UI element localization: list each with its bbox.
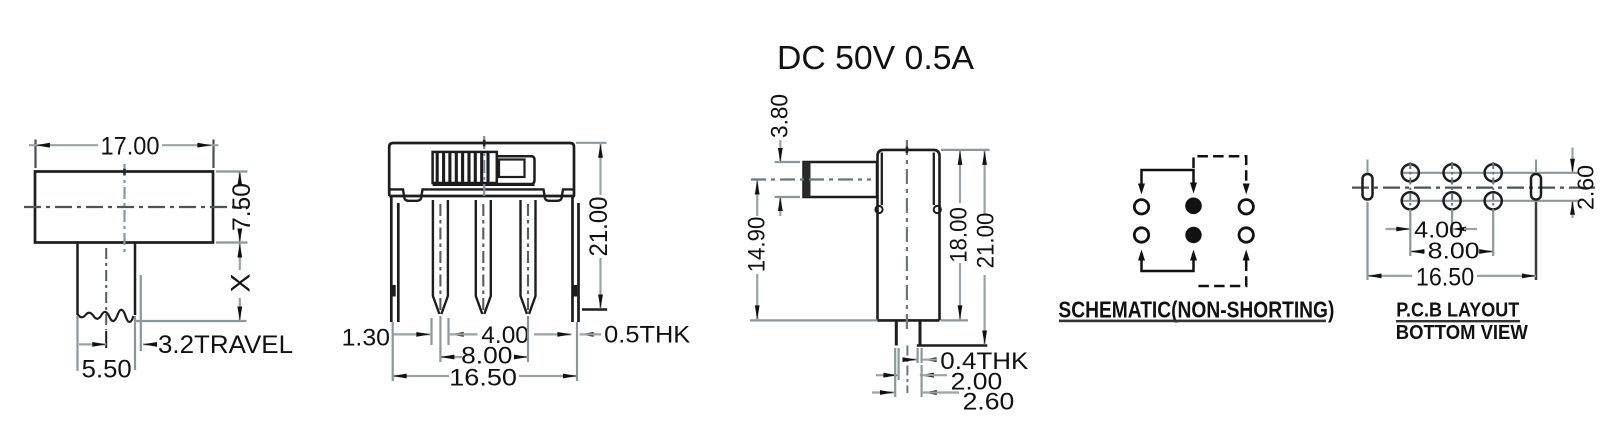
- svg-text:X: X: [226, 274, 256, 293]
- svg-text:3.80: 3.80: [767, 94, 794, 138]
- svg-text:DC 50V 0.5A: DC 50V 0.5A: [777, 40, 975, 77]
- svg-text:14.90: 14.90: [744, 217, 771, 273]
- svg-text:0.5THK: 0.5THK: [604, 322, 690, 349]
- svg-text:17.00: 17.00: [101, 133, 160, 161]
- svg-text:21.00: 21.00: [585, 197, 613, 257]
- svg-text:7.50: 7.50: [228, 183, 256, 231]
- svg-text:18.00: 18.00: [946, 207, 973, 263]
- svg-text:5.50: 5.50: [82, 356, 132, 384]
- svg-text:1.30: 1.30: [342, 325, 390, 352]
- svg-text:16.50: 16.50: [1416, 264, 1474, 292]
- svg-text:SCHEMATIC(NON-SHORTING): SCHEMATIC(NON-SHORTING): [1058, 296, 1334, 322]
- svg-text:21.00: 21.00: [973, 213, 1000, 269]
- svg-text:3.2TRAVEL: 3.2TRAVEL: [158, 331, 293, 359]
- svg-text:BOTTOM VIEW: BOTTOM VIEW: [1396, 321, 1529, 344]
- svg-text:P.C.B LAYOUT: P.C.B LAYOUT: [1396, 299, 1519, 322]
- svg-text:2.60: 2.60: [963, 389, 1015, 416]
- svg-text:16.50: 16.50: [449, 365, 517, 392]
- svg-text:8.00: 8.00: [1428, 238, 1480, 264]
- svg-text:2.60: 2.60: [1573, 165, 1599, 210]
